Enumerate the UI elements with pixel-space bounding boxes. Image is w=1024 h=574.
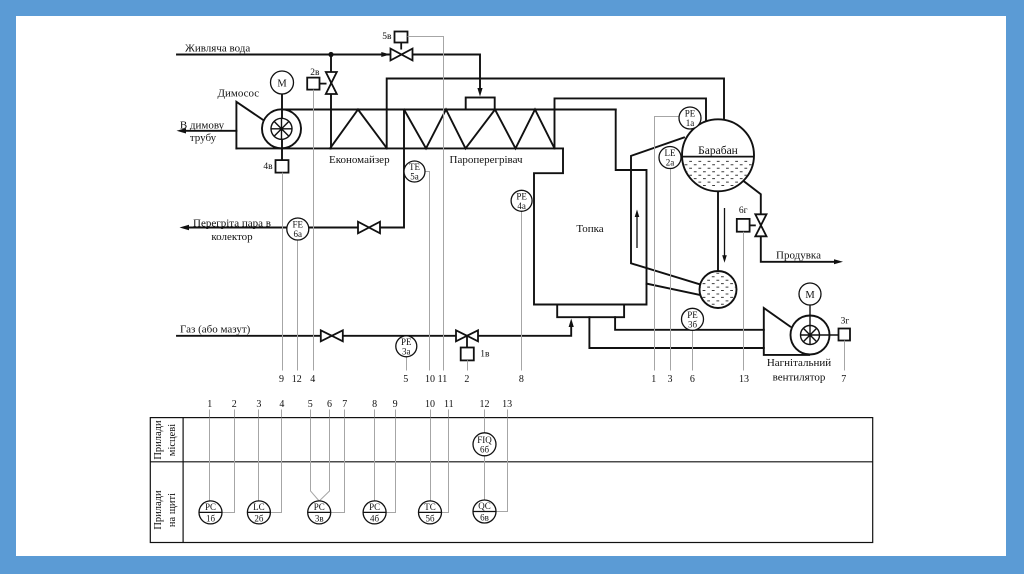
svg-text:PC: PC xyxy=(205,502,216,512)
wire PE3a to 5 xyxy=(406,357,408,371)
instrument FE 6a xyxy=(287,218,309,240)
smoke exhauster housing xyxy=(236,102,263,149)
svg-text:1а: 1а xyxy=(686,118,695,128)
instrument PC 1b xyxy=(199,501,222,524)
svg-text:13: 13 xyxy=(502,399,512,410)
actuator tag labels xyxy=(263,32,849,360)
wire economizer outlet to drum (line A) xyxy=(387,79,724,149)
svg-text:11: 11 xyxy=(438,374,448,385)
wire air duct lower xyxy=(589,317,763,348)
wire 1 to PC1b xyxy=(209,418,211,501)
svg-text:7: 7 xyxy=(841,374,846,385)
svg-text:8: 8 xyxy=(372,399,377,410)
wire 10 to TC5b xyxy=(430,418,432,501)
valve 5v control valve xyxy=(391,32,413,61)
svg-text:2: 2 xyxy=(464,374,469,385)
main text labels xyxy=(180,43,831,384)
lower drum xyxy=(698,271,738,308)
wire air duct upper xyxy=(615,317,764,330)
wire 11 to TC5b xyxy=(442,418,449,513)
instrument PE 4a xyxy=(511,190,532,211)
svg-text:6б: 6б xyxy=(480,445,490,455)
wire downcomer drum to lower drum xyxy=(717,191,719,271)
wire feed branch down through 2v valve to economizer xyxy=(330,55,332,149)
svg-text:6в: 6в xyxy=(480,513,489,523)
wire 1v to 2 xyxy=(467,360,469,370)
svg-text:6г: 6г xyxy=(739,206,748,216)
wire 2 to PC1b xyxy=(222,418,235,513)
svg-text:12: 12 xyxy=(480,399,490,410)
arrow gas into burner xyxy=(569,319,574,328)
svg-text:5б: 5б xyxy=(425,513,435,523)
svg-text:LC: LC xyxy=(253,502,265,512)
wire gas line xyxy=(177,327,571,336)
svg-text:6а: 6а xyxy=(294,229,303,239)
instrument circles field xyxy=(271,71,822,357)
svg-text:Живляча вода: Живляча вода xyxy=(185,43,250,55)
svg-text:місцеві: місцеві xyxy=(167,424,178,456)
svg-text:1б: 1б xyxy=(206,513,216,523)
svg-text:3: 3 xyxy=(256,399,261,410)
svg-text:2в: 2в xyxy=(310,68,320,78)
arrow steam to collector xyxy=(180,225,190,230)
svg-text:8: 8 xyxy=(519,374,524,385)
svg-text:5: 5 xyxy=(403,374,408,385)
svg-text:5а: 5а xyxy=(410,172,419,182)
wire 8 to PC4b xyxy=(374,418,376,501)
svg-text:11: 11 xyxy=(444,399,454,410)
arrow blowdown xyxy=(834,259,843,264)
svg-text:Газ (або мазут): Газ (або мазут) xyxy=(180,324,251,336)
svg-text:3: 3 xyxy=(668,374,673,385)
wire TE5a to 10 xyxy=(425,172,430,371)
riser channel left wall xyxy=(631,138,701,285)
arrow feed into header xyxy=(477,88,482,97)
riser flow arrow xyxy=(635,210,640,249)
valve steam manual xyxy=(358,222,380,234)
valve gas control 1v xyxy=(456,330,478,360)
svg-text:PE: PE xyxy=(685,109,696,119)
svg-text:4а: 4а xyxy=(517,201,526,211)
burner box xyxy=(557,305,624,318)
svg-text:6: 6 xyxy=(690,374,695,385)
wire PE4a to 8 xyxy=(521,211,523,370)
superheater coil zigzag xyxy=(404,110,555,149)
wire blowdown xyxy=(744,181,834,261)
node junction feed/2v branch xyxy=(328,52,333,57)
motor M blower xyxy=(799,283,821,305)
actuator square 3g xyxy=(839,329,851,341)
svg-text:1: 1 xyxy=(651,374,656,385)
svg-text:7: 7 xyxy=(342,399,347,410)
wire 7 to PC3v xyxy=(331,418,345,513)
blower shaft xyxy=(810,305,839,335)
actuator square 4v xyxy=(276,160,289,173)
furnace outline xyxy=(534,110,647,305)
svg-text:5: 5 xyxy=(308,399,313,410)
svg-text:PC: PC xyxy=(369,502,380,512)
svg-text:Топка: Топка xyxy=(576,223,603,235)
wire FE6a to 12 xyxy=(297,240,299,371)
svg-text:Економайзер: Економайзер xyxy=(329,154,390,166)
svg-text:3а: 3а xyxy=(402,346,411,356)
wire 6 to PC3v xyxy=(319,418,329,501)
instrument FIQ 6b xyxy=(473,433,496,456)
svg-text:3в: 3в xyxy=(315,513,324,523)
svg-text:4: 4 xyxy=(310,374,315,385)
svg-text:3г: 3г xyxy=(841,317,850,327)
svg-text:1: 1 xyxy=(207,399,212,410)
svg-text:QC: QC xyxy=(478,501,491,511)
wire 5 to PC3v xyxy=(311,418,320,501)
instrument table xyxy=(150,418,872,543)
svg-text:4: 4 xyxy=(279,399,284,410)
svg-text:TC: TC xyxy=(424,502,436,512)
svg-text:Прилади: Прилади xyxy=(153,490,164,530)
economizer coil zigzag xyxy=(330,110,387,149)
blower housing xyxy=(764,308,810,355)
svg-text:1в: 1в xyxy=(480,350,490,360)
wire 9 to PC4b xyxy=(386,418,395,513)
wire 2v to 4 xyxy=(313,90,315,371)
smoke exhauster scroll xyxy=(262,109,301,148)
wire 4 to LC2b xyxy=(270,418,281,513)
svg-text:LE: LE xyxy=(665,148,676,158)
wire 3 to LC2b xyxy=(258,418,260,501)
svg-text:4в: 4в xyxy=(263,162,273,172)
instrument TE 5a xyxy=(404,161,425,182)
svg-text:Прилади: Прилади xyxy=(153,420,164,460)
svg-text:М: М xyxy=(277,79,287,90)
instrument PE 3b xyxy=(682,308,704,330)
wire 5v to 11 xyxy=(408,37,444,371)
flue gas duct bottom line xyxy=(236,147,563,149)
panel instruments xyxy=(199,500,496,524)
smoke exhauster shaft xyxy=(281,94,283,160)
svg-text:4б: 4б xyxy=(370,513,380,523)
svg-text:PE: PE xyxy=(401,337,412,347)
wire feed water main xyxy=(177,54,391,56)
svg-text:Пароперегрівач: Пароперегрівач xyxy=(450,154,524,166)
wire 6g to 13 xyxy=(743,232,745,371)
blower wheel xyxy=(801,326,820,345)
thin instrument signal lines xyxy=(283,37,845,371)
instrument LE 2a xyxy=(659,147,681,169)
svg-text:Димосос: Димосос xyxy=(218,88,260,100)
svg-text:6: 6 xyxy=(327,399,332,410)
downcomer channel right slant xyxy=(647,284,703,296)
smoke exhauster wheel xyxy=(271,118,292,139)
svg-text:PC: PC xyxy=(314,502,325,512)
instrument PC 3v xyxy=(308,501,331,524)
instrument TC 5b xyxy=(419,501,442,524)
svg-text:колектор: колектор xyxy=(211,231,253,243)
wire drum to superheater (line B) xyxy=(555,98,707,148)
svg-text:9: 9 xyxy=(393,399,398,410)
upper numbers row xyxy=(279,374,846,385)
svg-text:12: 12 xyxy=(292,374,302,385)
smoke outlet pipe to chimney xyxy=(185,130,236,132)
wire 4v to 9 xyxy=(282,173,284,371)
flue gas duct top line xyxy=(283,109,616,111)
svg-text:9: 9 xyxy=(279,374,284,385)
valve 6g blowdown xyxy=(737,214,767,236)
wire PE1a to 1 xyxy=(655,117,680,371)
instrument LC 2b xyxy=(247,501,270,524)
svg-text:Перегріта пара в: Перегріта пара в xyxy=(193,217,271,229)
downcomer flow arrow xyxy=(722,208,727,263)
instrument PE 3a xyxy=(396,336,417,357)
instrument labels xyxy=(277,79,815,357)
arrow before 5v valve xyxy=(381,52,390,57)
svg-text:3б: 3б xyxy=(688,319,698,329)
svg-text:Барабан: Барабан xyxy=(698,145,738,157)
svg-text:вентилятор: вентилятор xyxy=(773,372,826,384)
svg-text:Нагнітальний: Нагнітальний xyxy=(767,357,831,369)
svg-text:5в: 5в xyxy=(382,32,392,42)
wire 3g to 7 xyxy=(844,341,846,371)
svg-text:2а: 2а xyxy=(666,158,675,168)
svg-text:10: 10 xyxy=(425,399,435,410)
table signal lines xyxy=(210,418,508,513)
valve gas manual xyxy=(321,330,343,341)
drum Барабан xyxy=(680,119,756,191)
instrument QC 6v xyxy=(473,500,496,523)
svg-text:PE: PE xyxy=(687,310,698,320)
svg-text:2б: 2б xyxy=(254,513,264,523)
wire 13 to QC6v xyxy=(496,418,508,512)
svg-text:10: 10 xyxy=(425,374,435,385)
blower scroll xyxy=(791,316,830,355)
svg-text:PE: PE xyxy=(516,191,527,201)
svg-text:на щиті: на щиті xyxy=(167,493,178,527)
instrument PC 4b xyxy=(363,501,386,524)
svg-text:М: М xyxy=(805,290,815,301)
wire LE2a to 3 xyxy=(670,169,672,371)
lower numbers row xyxy=(207,399,512,410)
wire PE3b to 6 xyxy=(692,330,694,370)
svg-text:Продувка: Продувка xyxy=(776,250,821,262)
svg-text:FE: FE xyxy=(293,220,304,230)
svg-text:TE: TE xyxy=(409,162,420,172)
svg-text:В димову: В димову xyxy=(180,120,225,132)
arrow to chimney xyxy=(177,128,187,133)
economizer inlet header box xyxy=(466,98,495,110)
svg-text:2: 2 xyxy=(232,399,237,410)
svg-text:трубу: трубу xyxy=(190,132,217,144)
table row labels rotated xyxy=(153,420,178,530)
svg-text:FIQ: FIQ xyxy=(477,435,492,445)
motor M smoke exhauster xyxy=(271,71,294,94)
instrument PE 1a xyxy=(679,107,701,129)
wire superheated steam to collector xyxy=(188,110,404,228)
ticks below lower numbers xyxy=(210,410,508,418)
wire 12 to FIQ6b xyxy=(484,418,486,500)
valve 2v xyxy=(307,72,337,94)
svg-text:13: 13 xyxy=(739,374,749,385)
